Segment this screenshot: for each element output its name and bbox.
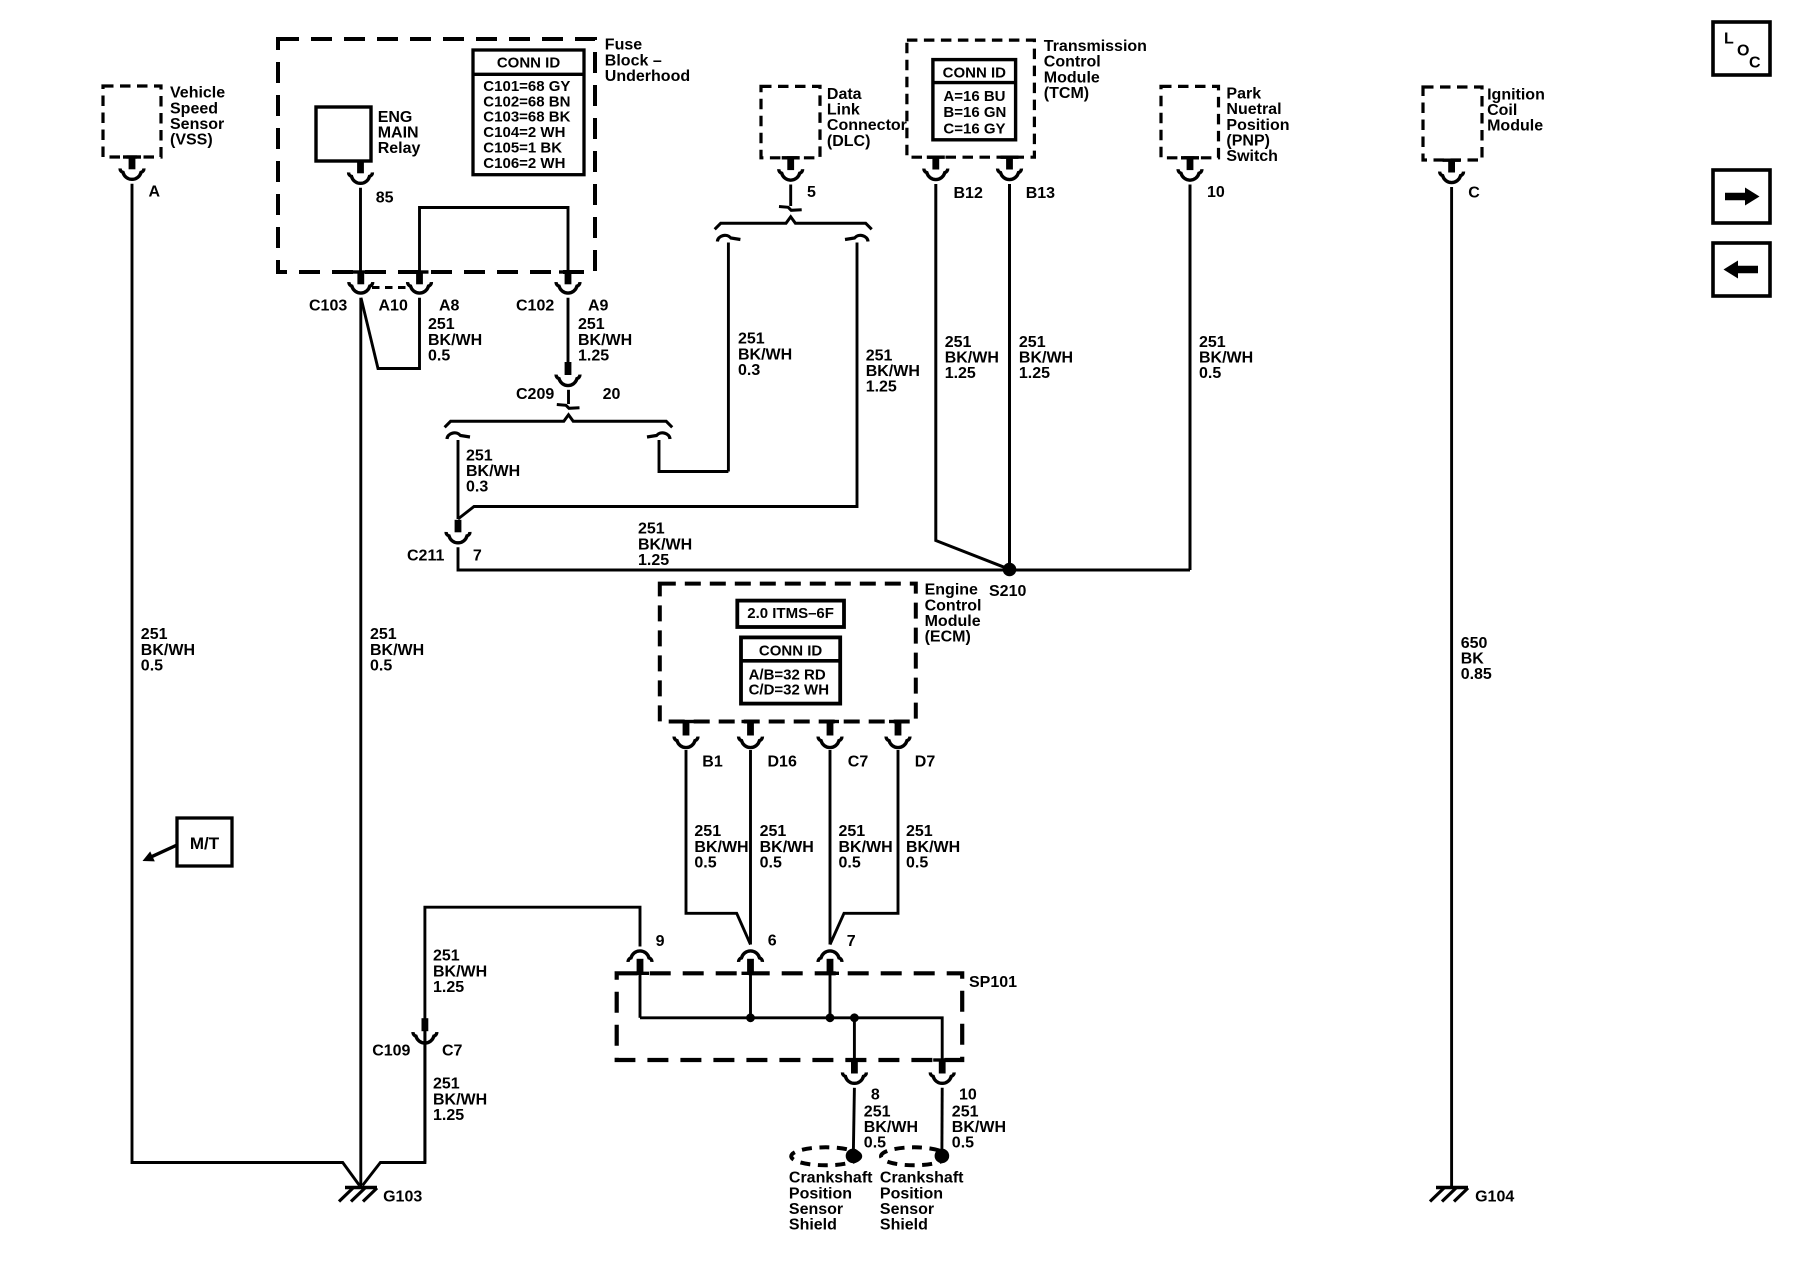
wire: SP101 pin 8 to crankshaft sensor shield (251 BK/WH 0.5) [853, 1088, 854, 1150]
wire: PNP pin 10 down to S210 run (251 BK/WH 0.5) [1189, 185, 1192, 571]
wire: ECM D7 to SP101 pin 7 (251 BK/WH 0.5) [830, 750, 898, 945]
component box: Engine Control Module (ECM) [660, 584, 916, 722]
svg-text:BK/WH: BK/WH [952, 1119, 1006, 1136]
shield ellipse: Crankshaft Position Sensor Shield (left) [791, 1147, 860, 1165]
svg-text:CONN ID: CONN ID [497, 55, 561, 72]
wire: A9 to C209 [567, 298, 570, 362]
svg-text:5: 5 [807, 184, 816, 201]
svg-text:Position: Position [1226, 117, 1289, 134]
wire: C109 leg joining ground G103 [363, 1048, 425, 1186]
svg-text:C: C [1468, 184, 1480, 201]
dashed link between C103 and A8 connectors [372, 286, 408, 289]
connector C109 pin C7 [422, 1018, 429, 1031]
connector pin B1 of ECM [677, 720, 695, 723]
svg-text:251: 251 [638, 521, 665, 538]
svg-text:6: 6 [768, 933, 777, 950]
splice S210 junction dot [1003, 563, 1017, 577]
svg-text:251: 251 [578, 316, 605, 333]
svg-text:251: 251 [906, 823, 933, 840]
svg-text:Crankshaft: Crankshaft [789, 1170, 873, 1187]
svg-text:Park: Park [1226, 86, 1261, 103]
svg-text:(ECM): (ECM) [925, 629, 971, 646]
svg-text:BK/WH: BK/WH [866, 363, 920, 380]
connector C102 cavity A9 [559, 270, 577, 273]
svg-text:A8: A8 [439, 297, 460, 314]
svg-text:251: 251 [864, 1104, 891, 1121]
svg-text:Sensor: Sensor [880, 1201, 934, 1218]
svg-text:C102: C102 [516, 297, 554, 314]
svg-text:0.5: 0.5 [694, 854, 716, 871]
connector pin 6 of SP101 [739, 951, 763, 962]
svg-text:8: 8 [871, 1086, 880, 1103]
svg-text:Position: Position [789, 1185, 852, 1202]
ground G104 [1436, 1186, 1468, 1189]
svg-text:C: C [1749, 55, 1761, 72]
svg-text:1.25: 1.25 [433, 979, 464, 996]
connector pin 7 of SP101 [818, 951, 842, 962]
svg-text:Control: Control [925, 597, 982, 614]
table: ECM CONN ID [741, 637, 840, 703]
branch hook right of C209 brace [647, 433, 670, 439]
svg-text:A=16 BU: A=16 BU [943, 88, 1005, 105]
svg-text:251: 251 [428, 316, 455, 333]
tag box: M/T (manual transmission note) [177, 818, 232, 866]
svg-text:Sensor: Sensor [789, 1201, 843, 1218]
connector pin 8 of SP101 [845, 1058, 863, 1061]
svg-text:Coil: Coil [1487, 102, 1517, 119]
svg-text:Transmission: Transmission [1044, 38, 1147, 55]
svg-text:Shield: Shield [880, 1217, 928, 1234]
svg-text:S210: S210 [989, 583, 1026, 600]
wire: TCM B12 to splice S210 (251 BK/WH 1.25) [936, 184, 1010, 569]
svg-text:Nuetral: Nuetral [1226, 101, 1281, 118]
svg-text:251: 251 [945, 334, 972, 351]
svg-text:BK: BK [1461, 651, 1485, 668]
svg-text:251: 251 [1019, 334, 1046, 351]
svg-text:BK/WH: BK/WH [141, 642, 195, 659]
svg-text:20: 20 [603, 386, 621, 403]
branch hook left of DLC brace [717, 235, 740, 241]
svg-text:BK/WH: BK/WH [738, 346, 792, 363]
tag box: 2.0 ITMS-6F [737, 601, 844, 627]
ground G103 [345, 1186, 377, 1189]
svg-text:Engine: Engine [925, 582, 978, 599]
svg-text:O: O [1737, 43, 1749, 60]
svg-text:Control: Control [1044, 54, 1101, 71]
svg-text:251: 251 [433, 948, 460, 965]
svg-text:BK/WH: BK/WH [694, 839, 748, 856]
svg-text:BK/WH: BK/WH [466, 463, 520, 480]
svg-text:BK/WH: BK/WH [1019, 349, 1073, 366]
wire: C209 brace right branch to DLC left branch [659, 440, 728, 472]
component box: Transmission Control Module (TCM) [907, 40, 1035, 157]
connector pin 85 of ENG MAIN Relay [357, 161, 364, 173]
wire: ECM B1 to SP101 pin 6 (251 BK/WH 0.5) [686, 750, 751, 945]
connector pin 10 of SP101 [933, 1058, 951, 1061]
svg-text:Fuse: Fuse [605, 37, 642, 54]
svg-text:B1: B1 [702, 753, 723, 770]
svg-text:Position: Position [880, 1185, 943, 1202]
connector pin 9 of SP101 [628, 951, 652, 962]
svg-text:Connector: Connector [827, 117, 907, 134]
svg-text:0.5: 0.5 [1199, 365, 1221, 382]
svg-text:1.25: 1.25 [638, 552, 669, 569]
splice brace under C209 [445, 415, 673, 428]
connector C211 pin 7 [455, 520, 462, 533]
svg-text:BK/WH: BK/WH [433, 963, 487, 980]
table: TCM CONN ID [933, 60, 1016, 140]
svg-text:A9: A9 [588, 297, 609, 314]
svg-text:1.25: 1.25 [1019, 365, 1050, 382]
svg-text:7: 7 [847, 933, 856, 950]
svg-text:0.5: 0.5 [760, 854, 782, 871]
shield terminal dot (right) [935, 1149, 950, 1164]
svg-text:B13: B13 [1026, 185, 1055, 202]
svg-text:251: 251 [760, 823, 787, 840]
wire: SP101 pin 10 to crankshaft sensor shield (251 BK/WH 0.5) [940, 1088, 943, 1150]
svg-text:BK/WH: BK/WH [760, 839, 814, 856]
svg-text:7: 7 [473, 547, 482, 564]
component box: Vehicle Speed Sensor (VSS) [103, 86, 161, 157]
splice brace under DLC [715, 217, 872, 230]
svg-text:C=16 GY: C=16 GY [943, 120, 1005, 137]
svg-text:1.25: 1.25 [433, 1107, 464, 1124]
svg-text:C211: C211 [407, 547, 444, 564]
wire: SP101 pin 7 to internal bus [829, 974, 832, 1018]
wire: relay pin 85 down to fuse block edge [359, 188, 362, 272]
component box: Ignition Coil Module [1423, 87, 1482, 160]
svg-text:Switch: Switch [1226, 148, 1278, 165]
shield ellipse: Crankshaft Position Sensor Shield (right) [881, 1147, 947, 1165]
svg-text:C7: C7 [848, 753, 869, 770]
svg-text:BK/WH: BK/WH [1199, 349, 1253, 366]
svg-text:BK/WH: BK/WH [839, 839, 893, 856]
svg-text:Vehicle: Vehicle [170, 85, 225, 102]
svg-text:Module: Module [1487, 118, 1543, 135]
svg-text:C106=2 WH: C106=2 WH [483, 155, 565, 172]
svg-text:BK/WH: BK/WH [578, 332, 632, 349]
wire: ECM C7 to SP101 pin 7 (251 BK/WH 0.5) [829, 750, 832, 945]
wire: fuse block internal link A8 to A9 [420, 208, 569, 272]
splice pack box: SP101 [617, 973, 963, 1060]
svg-text:1.25: 1.25 [866, 379, 897, 396]
svg-text:SP101: SP101 [969, 974, 1017, 991]
svg-text:D7: D7 [915, 753, 936, 770]
svg-text:85: 85 [376, 189, 394, 206]
connector pin A of VSS [123, 155, 141, 158]
svg-text:C103: C103 [309, 297, 347, 314]
svg-text:BK/WH: BK/WH [945, 349, 999, 366]
svg-text:0.3: 0.3 [738, 362, 760, 379]
svg-text:251: 251 [866, 347, 893, 364]
arrow from M/T box to VSS wire [150, 845, 177, 857]
svg-text:251: 251 [694, 823, 721, 840]
wire: bus drop to SP101 pin 8 [853, 1018, 856, 1061]
svg-text:BK/WH: BK/WH [638, 536, 692, 553]
svg-text:G104: G104 [1475, 1189, 1514, 1206]
svg-text:10: 10 [959, 1086, 977, 1103]
connector pin B12 of TCM [927, 156, 945, 159]
wire: SP101 pin 6 to internal bus [749, 974, 752, 1018]
svg-text:(DLC): (DLC) [827, 133, 871, 150]
svg-text:251: 251 [839, 823, 866, 840]
connector pin 5 of DLC [782, 156, 800, 159]
relay box: ENG MAIN Relay [316, 107, 371, 161]
branch hook left of C209 brace [447, 433, 470, 439]
wire: DLC left branch down (251 BK/WH 0.3) [727, 243, 730, 472]
svg-text:0.5: 0.5 [141, 657, 163, 674]
wire: DLC right branch down to C211 feed (251 BK/WH 1.25) [458, 243, 857, 520]
svg-text:C209: C209 [516, 386, 554, 403]
wire: TCM B13 to splice S210 (251 BK/WH 1.25) [1008, 184, 1011, 570]
svg-text:Speed: Speed [170, 100, 218, 117]
svg-text:Shield: Shield [789, 1217, 837, 1234]
svg-text:0.85: 0.85 [1461, 666, 1492, 683]
connector C209 pin 20 [565, 362, 572, 375]
nav box: arrow left [1713, 243, 1770, 296]
svg-text:Module: Module [925, 613, 981, 630]
svg-text:BK/WH: BK/WH [433, 1091, 487, 1108]
svg-text:CONN ID: CONN ID [759, 642, 823, 659]
junction dot at pin 6 on bus [746, 1013, 755, 1022]
svg-text:2.0 ITMS–6F: 2.0 ITMS–6F [747, 605, 834, 622]
wire end squiggle at C209 [557, 405, 580, 409]
svg-text:C7: C7 [442, 1042, 463, 1059]
connector pin D7 of ECM [889, 720, 907, 723]
wire: C209 brace left branch down to C211 (251 BK/WH 0.3) [457, 440, 460, 519]
svg-text:Link: Link [827, 102, 860, 119]
svg-text:CONN ID: CONN ID [943, 64, 1007, 81]
junction dot at pin 8 drop on bus [850, 1013, 859, 1022]
svg-text:B=16 GN: B=16 GN [943, 104, 1006, 121]
svg-text:ENG: ENG [378, 109, 413, 126]
wire end squiggle at DLC [779, 207, 802, 211]
svg-text:C109: C109 [372, 1042, 410, 1059]
svg-text:BK/WH: BK/WH [428, 332, 482, 349]
svg-text:B12: B12 [954, 185, 983, 202]
table: fuse block CONN ID [473, 50, 584, 175]
svg-text:9: 9 [656, 933, 665, 950]
svg-text:G103: G103 [383, 1189, 422, 1206]
svg-text:(PNP): (PNP) [1226, 132, 1270, 149]
wire: C209 to splice brace [567, 390, 570, 404]
svg-text:BK/WH: BK/WH [864, 1119, 918, 1136]
svg-text:251: 251 [433, 1076, 460, 1093]
svg-text:650: 650 [1461, 635, 1488, 652]
svg-text:Crankshaft: Crankshaft [880, 1170, 964, 1187]
svg-text:Module: Module [1044, 69, 1100, 86]
wire: SP101 pin 9 to internal bus [639, 974, 642, 1018]
svg-text:251: 251 [738, 331, 765, 348]
LOC reference box [1713, 22, 1770, 75]
wire: ECM D16 to SP101 pin 6 (251 BK/WH 0.5) [749, 750, 752, 945]
svg-text:0.5: 0.5 [428, 347, 450, 364]
wire: C109 up and over to SP101 pin 9 (251 BK/WH 1.25) [425, 907, 640, 1047]
svg-text:D16: D16 [768, 753, 797, 770]
branch hook right of DLC brace [845, 235, 868, 241]
wire: VSS pin A to ground G103 (251 BK/WH 0.5) [132, 184, 360, 1186]
svg-text:(TCM): (TCM) [1044, 85, 1089, 102]
svg-text:1.25: 1.25 [945, 365, 976, 382]
svg-text:Relay: Relay [378, 140, 421, 157]
wire: C103 down to ground G103 (251 BK/WH 0.5) [359, 298, 362, 1186]
wire: G103 right feed up to C109 (251 BK/WH 1.25) [423, 1019, 426, 1163]
wire: SP101 internal bus [640, 1018, 942, 1061]
wire: ignition coil to ground G104 (650 BK 0.85) [1450, 187, 1453, 1186]
svg-text:Underhood: Underhood [605, 68, 690, 85]
svg-text:0.5: 0.5 [370, 657, 392, 674]
svg-text:251: 251 [1199, 334, 1226, 351]
svg-text:BK/WH: BK/WH [906, 839, 960, 856]
svg-text:251: 251 [466, 447, 493, 464]
connector pin C of Ignition Coil Module [1443, 159, 1461, 162]
nav box: arrow right [1713, 170, 1770, 223]
wire: C211 to S210 and PNP (251 BK/WH 1.25) [458, 547, 1190, 570]
svg-text:0.5: 0.5 [839, 854, 861, 871]
connector C103 cavity A10 [352, 270, 370, 273]
wire: DLC pin 5 to splice brace [789, 185, 792, 207]
connector pin C7 of ECM [821, 720, 839, 723]
svg-text:251: 251 [952, 1104, 979, 1121]
svg-text:Data: Data [827, 86, 862, 103]
svg-text:251: 251 [141, 626, 168, 643]
component box: Data Link Connector (DLC) [761, 86, 820, 157]
svg-text:0.5: 0.5 [864, 1135, 886, 1152]
shield terminal dot (left) [846, 1149, 861, 1164]
svg-text:Block –: Block – [605, 52, 662, 69]
svg-text:251: 251 [370, 626, 397, 643]
svg-text:MAIN: MAIN [378, 125, 419, 142]
svg-text:0.3: 0.3 [466, 479, 488, 496]
wire: C103 to A8 u-loop [361, 298, 420, 369]
connector pin B13 of TCM [1001, 156, 1019, 159]
svg-text:L: L [1724, 31, 1734, 48]
svg-text:A10: A10 [379, 297, 408, 314]
connector pin D16 of ECM [742, 720, 760, 723]
component box: Fuse Block - Underhood [278, 39, 595, 272]
connector pin 10 of PNP switch [1181, 156, 1199, 159]
svg-text:1.25: 1.25 [578, 347, 609, 364]
component box: Park Nuetral Position (PNP) Switch [1161, 86, 1219, 157]
svg-text:Ignition: Ignition [1487, 86, 1545, 103]
svg-text:0.5: 0.5 [952, 1135, 974, 1152]
svg-text:(VSS): (VSS) [170, 132, 213, 149]
connector A8 [411, 270, 429, 273]
svg-text:0.5: 0.5 [906, 854, 928, 871]
svg-text:10: 10 [1207, 184, 1225, 201]
junction dot at pin 7 on bus [826, 1013, 835, 1022]
svg-text:M/T: M/T [190, 834, 220, 853]
svg-text:Sensor: Sensor [170, 116, 224, 133]
svg-text:A: A [149, 184, 161, 201]
svg-text:BK/WH: BK/WH [370, 642, 424, 659]
svg-text:C/D=32 WH: C/D=32 WH [749, 682, 829, 699]
